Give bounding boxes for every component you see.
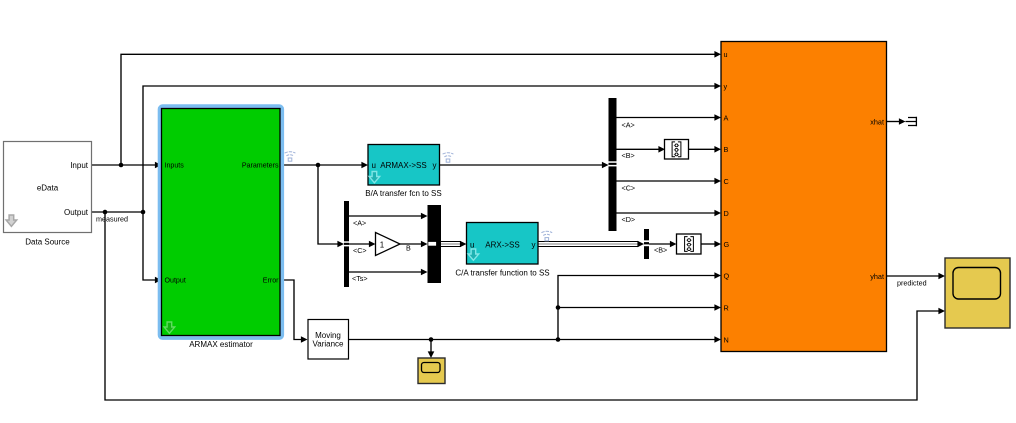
- arrowhead into port C: [714, 178, 721, 185]
- arrowhead into gain: [369, 241, 376, 248]
- arrowhead into bus creator from <A>: [421, 213, 428, 220]
- svg-text:y: y: [532, 240, 536, 249]
- svg-text:<A>: <A>: [622, 121, 635, 130]
- wire branch up to Q: [558, 276, 716, 340]
- svg-text:C: C: [724, 177, 729, 186]
- svg-text:y: y: [433, 161, 437, 170]
- svg-text:<Ts>: <Ts>: [352, 274, 368, 283]
- svg-text:D: D: [724, 209, 729, 218]
- wire bar1 <Ts> out: [349, 271, 422, 273]
- svg-text:ARX->SS: ARX->SS: [485, 240, 519, 249]
- wire measured up to y: [143, 86, 716, 212]
- wire measured down to ARMAX Output: [143, 212, 156, 280]
- arrowhead into ARMAX Inputs: [155, 162, 162, 169]
- terminator xhat: [906, 117, 917, 126]
- bus wire ARX y to bar3: [538, 242, 639, 247]
- arrowhead into terminator: [899, 118, 906, 125]
- arrowhead into port u: [714, 51, 721, 58]
- svg-text:u: u: [724, 50, 728, 59]
- svg-text:predicted: predicted: [897, 279, 927, 288]
- arrowhead into Moving Variance: [301, 336, 308, 343]
- arrowhead into scope input 1: [938, 273, 945, 280]
- wire ARMAX->SS y to big bus selector: [440, 164, 604, 166]
- node variance-N junction: [556, 337, 561, 342]
- svg-text:Variance: Variance: [313, 340, 345, 349]
- block selector2: [677, 234, 702, 254]
- arrowhead into ARMAX->SS u: [361, 162, 368, 169]
- svg-text:<C>: <C>: [353, 246, 367, 255]
- signal name labels: [96, 215, 927, 288]
- svg-text:y: y: [724, 82, 728, 91]
- arrowhead into port G: [714, 241, 721, 248]
- block small scope: [418, 358, 445, 384]
- wire branch to R: [558, 307, 716, 309]
- wire bigbar D: [617, 212, 717, 214]
- svg-text:B: B: [406, 244, 411, 253]
- arrowhead into ARMAX Output: [155, 277, 162, 284]
- node measured junction: [141, 210, 146, 215]
- svg-text:A: A: [724, 113, 729, 122]
- bus wire bar2 to ARX: [441, 242, 461, 247]
- svg-text:R: R: [724, 304, 729, 313]
- wire yhat to scope: [887, 275, 941, 277]
- svg-text:Output: Output: [165, 277, 186, 285]
- svg-text:G: G: [724, 240, 730, 249]
- wifi badge ARMAX->SS: [443, 153, 454, 163]
- wire bigbar C: [617, 180, 717, 182]
- svg-text:u: u: [470, 240, 474, 249]
- block selector1: [665, 140, 689, 160]
- arrowhead into port N: [714, 336, 721, 343]
- block Moving Variance: [308, 320, 349, 360]
- junction dots: [103, 163, 561, 342]
- svg-text:xhat: xhat: [870, 117, 884, 126]
- node input/u junction: [119, 163, 124, 168]
- wire bar1 <C> to gain: [349, 243, 370, 245]
- svg-text:Parameters: Parameters: [242, 162, 279, 170]
- block estimator subsystem (orange): [721, 42, 887, 352]
- block ARMAX->SS: [365, 145, 441, 198]
- wire Input->ARMAX Inputs: [92, 164, 157, 166]
- wire xhat: [887, 121, 901, 123]
- svg-text:B/A transfer fcn to SS: B/A transfer fcn to SS: [365, 189, 441, 198]
- svg-text:yhat: yhat: [870, 272, 884, 281]
- svg-text:1: 1: [380, 241, 385, 250]
- wire selector2 out to G: [701, 243, 716, 245]
- block ARMAX estimator (selected): [160, 106, 283, 349]
- svg-text:B: B: [724, 145, 729, 154]
- wifi badge ARX->SS: [541, 231, 552, 241]
- arrowhead into selector2: [670, 241, 677, 248]
- svg-text:u: u: [372, 161, 376, 170]
- arrowhead into bus creator from <Ts>: [421, 269, 428, 276]
- block big bus selector: [609, 98, 617, 231]
- svg-text:<B>: <B>: [622, 151, 635, 160]
- wire Parameters: [280, 164, 363, 166]
- arrowhead into port D: [714, 210, 721, 217]
- arrowhead into ARX->SS u: [460, 241, 467, 248]
- svg-text:<C>: <C>: [622, 184, 636, 193]
- arrowhead into port y: [714, 83, 721, 90]
- node parameters junction: [316, 163, 321, 168]
- wire gain out: [400, 243, 422, 245]
- block ARX->SS: [455, 223, 549, 278]
- svg-text:C/A transfer function to SS: C/A transfer function to SS: [455, 269, 549, 278]
- block bus creator bar2: [428, 205, 442, 283]
- wire bar1 <A> out: [349, 215, 422, 217]
- arrowhead into big bus selector: [602, 162, 609, 169]
- svg-text:eData: eData: [37, 184, 59, 193]
- wire bigbar B to selector1: [617, 148, 661, 150]
- arrowhead into port Q: [714, 272, 721, 279]
- svg-text:Output: Output: [64, 208, 89, 217]
- svg-text:measured: measured: [96, 215, 128, 224]
- wire selector1 to B: [689, 148, 716, 150]
- wire bigbar A: [617, 117, 717, 119]
- block Data Source: [4, 142, 92, 247]
- arrowhead into port A: [714, 114, 721, 121]
- svg-text:ARMAX estimator: ARMAX estimator: [189, 340, 253, 349]
- wire Parameters branch down to bus selector1: [318, 165, 339, 244]
- wire Moving Variance out to N: [349, 339, 717, 341]
- arrowhead into scope input 2: [938, 308, 945, 315]
- wire Error -> Moving Variance: [280, 280, 302, 340]
- wifi badge parameters: [285, 152, 296, 162]
- block bus selector bar3: [644, 229, 649, 259]
- svg-text:Inputs: Inputs: [165, 162, 185, 170]
- arrowhead into selector1: [658, 146, 665, 153]
- svg-text:<A>: <A>: [353, 219, 366, 228]
- block bus selector bar1: [344, 201, 349, 287]
- block scope (predicted): [945, 258, 1010, 328]
- arrowhead into bus selector3: [637, 241, 644, 248]
- arrowhead into port B: [714, 146, 721, 153]
- node measured junction lower: [103, 210, 108, 215]
- wire Output(measured): [92, 211, 144, 213]
- arrowhead into bus selector1: [337, 241, 344, 248]
- arrowheads: [155, 51, 945, 358]
- svg-text:Q: Q: [724, 272, 730, 281]
- node variance-R junction: [556, 305, 561, 310]
- svg-text:Error: Error: [263, 277, 279, 285]
- wire branch down to small scope: [430, 340, 432, 353]
- node variance-scope junction: [429, 337, 434, 342]
- wire selector3 out: [649, 243, 671, 245]
- svg-text:Input: Input: [70, 161, 89, 170]
- svg-text:<D>: <D>: [622, 215, 636, 224]
- svg-text:N: N: [724, 335, 729, 344]
- arrowhead into bus creator from gain: [421, 241, 428, 248]
- block gain 1: [376, 233, 401, 256]
- arrowhead into small scope: [428, 351, 435, 358]
- wire Input branch up to u: [121, 54, 716, 165]
- arrowhead into port R: [714, 304, 721, 311]
- svg-text:Data Source: Data Source: [25, 238, 70, 247]
- svg-text:<B>: <B>: [654, 246, 667, 255]
- wire measured bottom route to scope: [105, 212, 940, 400]
- svg-text:ARMAX->SS: ARMAX->SS: [380, 161, 426, 170]
